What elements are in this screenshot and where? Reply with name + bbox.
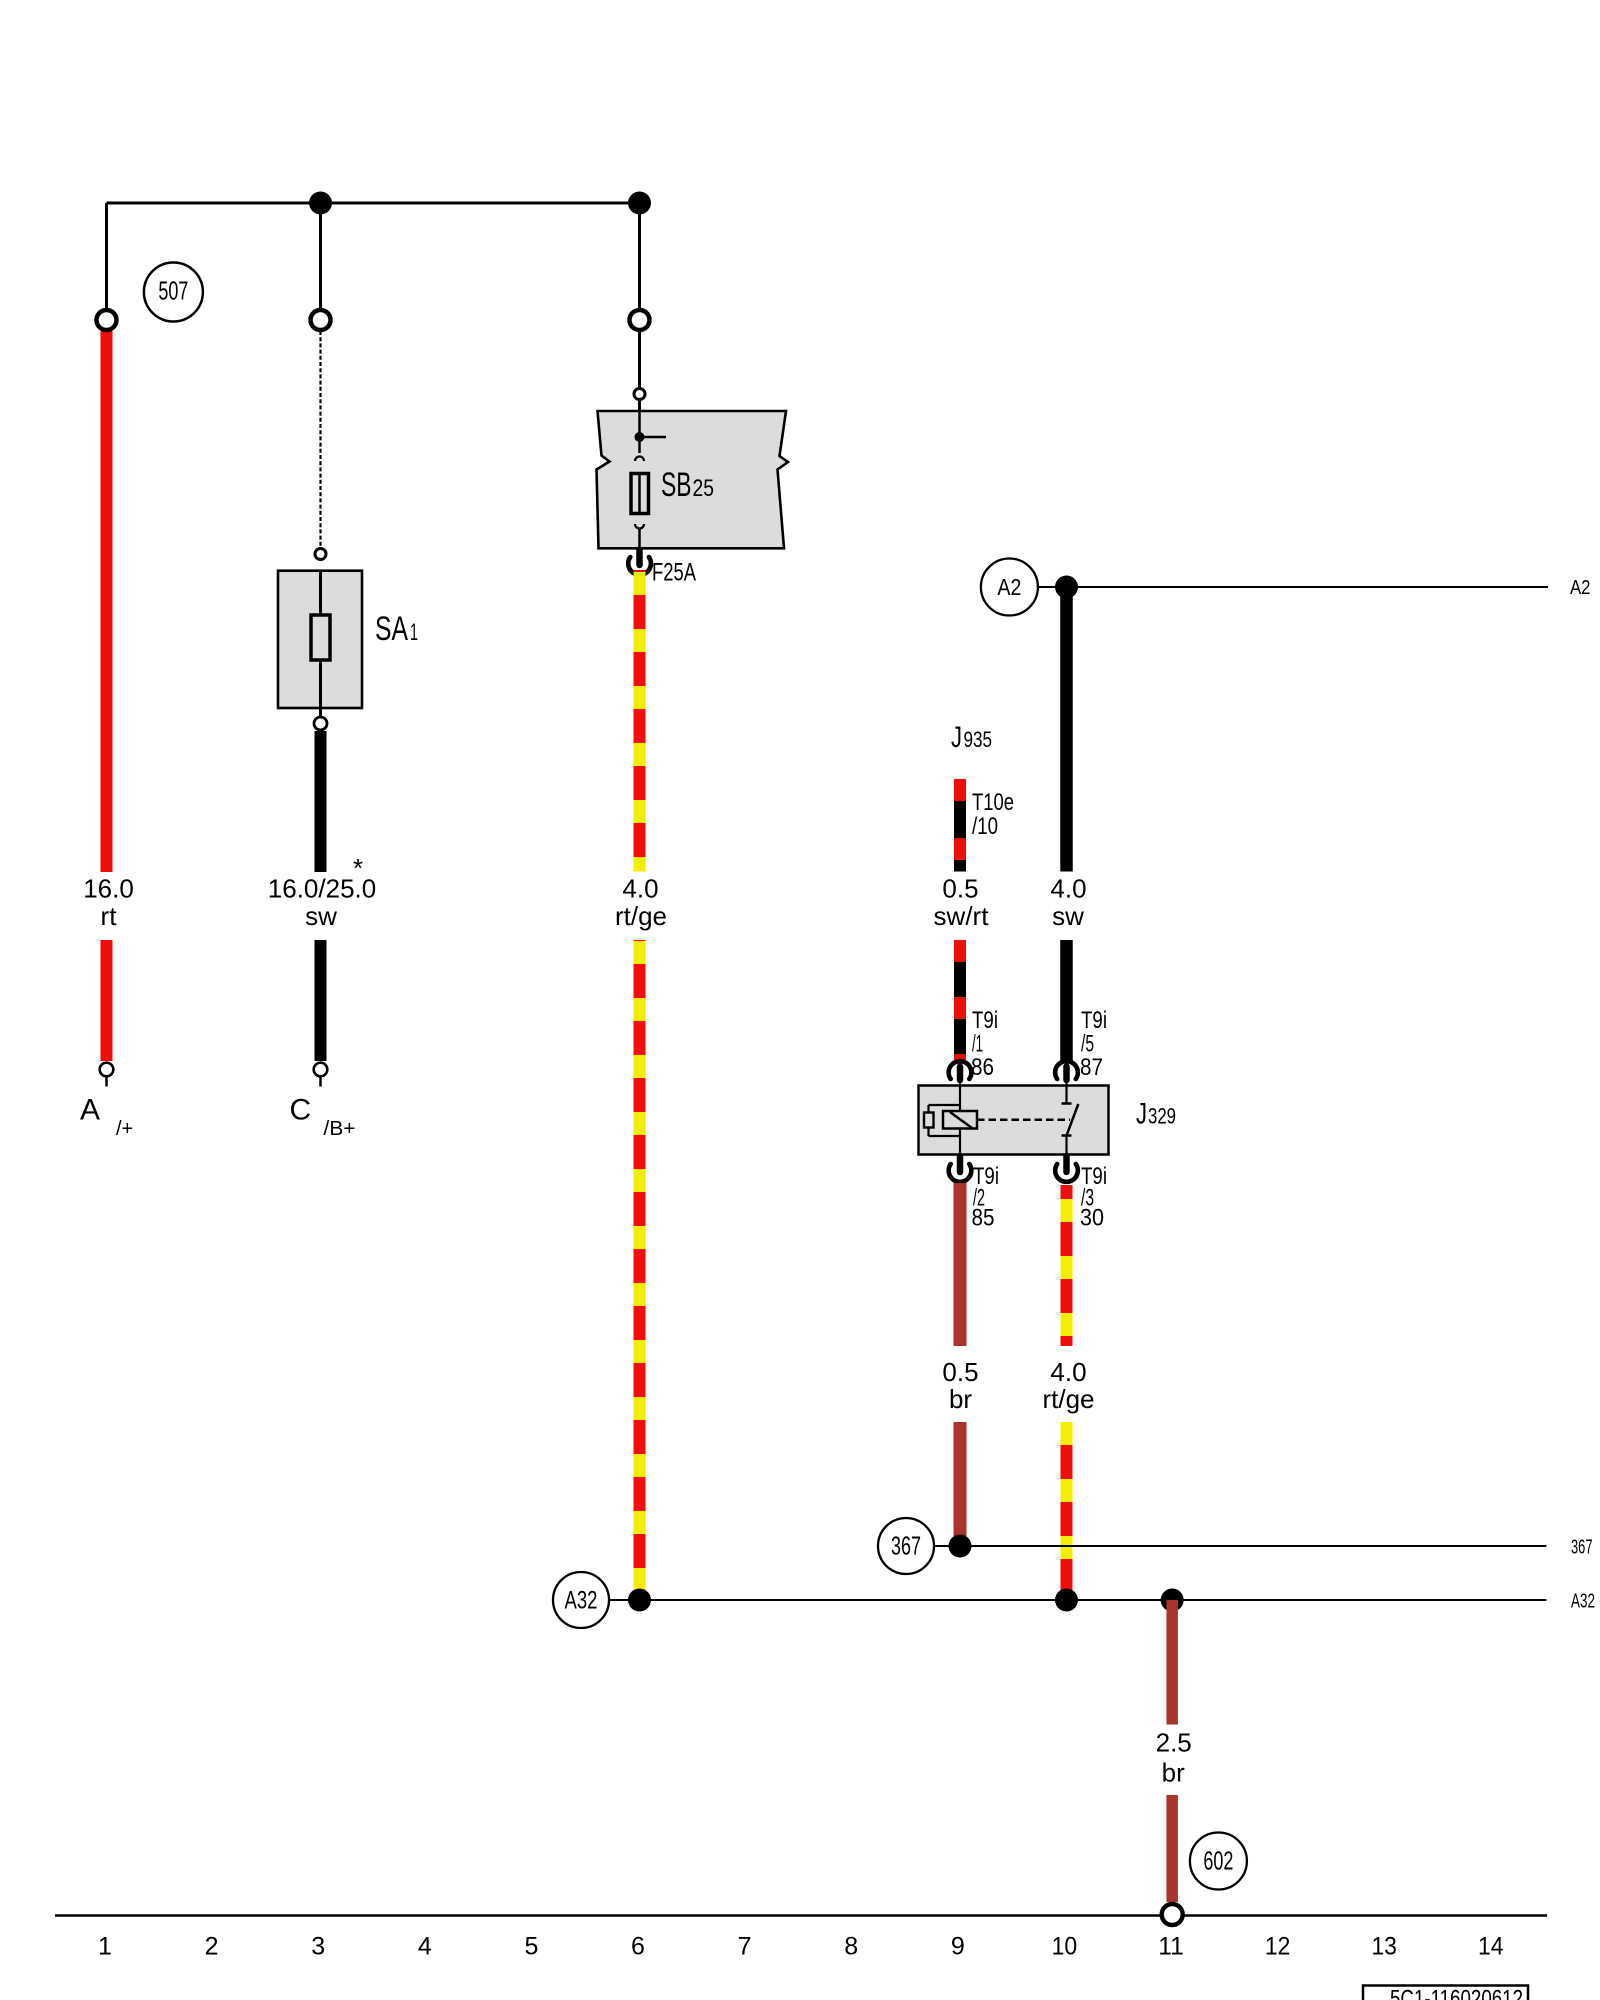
svg-text:*: * xyxy=(353,853,363,883)
svg-text:6: 6 xyxy=(631,1933,645,1961)
svg-text:1: 1 xyxy=(98,1933,112,1961)
svg-text:507: 507 xyxy=(158,276,188,306)
svg-text:4: 4 xyxy=(418,1933,432,1961)
svg-text:7: 7 xyxy=(738,1933,752,1961)
svg-text:5C1-116020612: 5C1-116020612 xyxy=(1390,1986,1523,2000)
svg-text:10: 10 xyxy=(1052,1933,1078,1961)
svg-text:SA: SA xyxy=(375,610,408,648)
svg-text:329: 329 xyxy=(1148,1104,1176,1129)
svg-text:4.0: 4.0 xyxy=(1050,874,1086,904)
svg-text:rt: rt xyxy=(101,901,118,931)
svg-text:30: 30 xyxy=(1080,1205,1104,1232)
svg-text:602: 602 xyxy=(1203,1846,1233,1876)
svg-text:4.0: 4.0 xyxy=(1050,1357,1086,1387)
svg-text:T10e: T10e xyxy=(972,789,1014,816)
svg-text:3: 3 xyxy=(311,1933,325,1961)
svg-text:A32: A32 xyxy=(1571,1591,1595,1613)
svg-text:85: 85 xyxy=(972,1205,995,1232)
svg-text:/+: /+ xyxy=(116,1118,133,1140)
svg-text:br: br xyxy=(1162,1758,1185,1788)
svg-text:/B+: /B+ xyxy=(324,1118,356,1140)
svg-text:A2: A2 xyxy=(997,574,1021,600)
svg-text:2.5: 2.5 xyxy=(1156,1728,1192,1758)
svg-text:rt/ge: rt/ge xyxy=(1042,1384,1094,1414)
svg-text:F25A: F25A xyxy=(652,559,696,587)
svg-text:1: 1 xyxy=(410,619,418,646)
svg-text:SB: SB xyxy=(661,466,692,504)
svg-text:86: 86 xyxy=(971,1054,994,1081)
svg-text:/10: /10 xyxy=(972,813,998,840)
svg-text:0.5: 0.5 xyxy=(942,874,978,904)
svg-text:5: 5 xyxy=(524,1933,538,1961)
svg-text:11: 11 xyxy=(1158,1933,1184,1961)
svg-text:4.0: 4.0 xyxy=(622,874,658,904)
svg-text:367: 367 xyxy=(891,1531,921,1561)
svg-text:13: 13 xyxy=(1371,1933,1397,1961)
svg-text:12: 12 xyxy=(1265,1933,1291,1961)
svg-text:A2: A2 xyxy=(1570,577,1591,599)
svg-text:A32: A32 xyxy=(565,1587,598,1615)
svg-text:14: 14 xyxy=(1478,1933,1504,1961)
svg-text:0.5: 0.5 xyxy=(942,1357,978,1387)
svg-text:A: A xyxy=(80,1094,100,1127)
svg-text:935: 935 xyxy=(964,727,993,752)
svg-text:2: 2 xyxy=(205,1933,219,1961)
svg-text:J: J xyxy=(951,721,962,754)
svg-text:16.0: 16.0 xyxy=(83,874,134,904)
svg-text:sw: sw xyxy=(1052,901,1084,931)
svg-text:sw: sw xyxy=(305,901,337,931)
svg-text:25: 25 xyxy=(693,475,715,502)
svg-text:rt/ge: rt/ge xyxy=(615,901,667,931)
svg-text:sw/rt: sw/rt xyxy=(934,901,990,931)
svg-text:C: C xyxy=(290,1094,312,1127)
svg-text:9: 9 xyxy=(951,1933,965,1961)
svg-text:br: br xyxy=(949,1384,972,1414)
svg-text:87: 87 xyxy=(1080,1054,1103,1081)
svg-text:367: 367 xyxy=(1571,1537,1593,1559)
svg-text:J: J xyxy=(1136,1098,1147,1131)
svg-text:8: 8 xyxy=(844,1933,858,1961)
